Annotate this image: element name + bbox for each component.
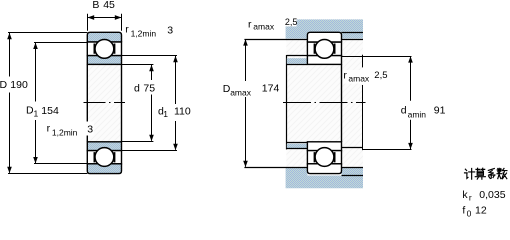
svg-text:amax: amax bbox=[230, 87, 252, 97]
groove shoulder lines bottom bbox=[94, 152, 114, 162]
svg-text:D: D bbox=[0, 79, 8, 91]
svg-text:110: 110 bbox=[174, 105, 191, 117]
dimension D_amax: dim line bbox=[245, 40, 247, 167]
groove shoulder lines top bbox=[94, 44, 114, 54]
dimension D_amax: arrows bbox=[243, 39, 248, 45]
right bearing inner ring bottom (white) bbox=[307, 142, 341, 151]
svg-text:174: 174 bbox=[262, 83, 280, 95]
label r_amax 2,5 (middle) bbox=[343, 70, 388, 84]
right bearing outer ring top (white) bbox=[307, 32, 341, 42]
housing bottom (blue) bbox=[286, 168, 363, 188]
center line (right bearing) bbox=[283, 102, 366, 104]
svg-text:2,5: 2,5 bbox=[285, 17, 298, 27]
svg-text:1: 1 bbox=[34, 109, 39, 119]
dimension d: dim line bbox=[151, 65, 153, 141]
ball bottom (right bearing) bbox=[315, 148, 334, 167]
svg-text:r: r bbox=[47, 123, 51, 135]
bearing outer ring top section (blue) bbox=[87, 32, 121, 42]
dimension B: arrows bbox=[88, 15, 95, 20]
计算系数 header (drawn as paths; CJK chars) bbox=[465, 168, 507, 179]
dimension d1: arrows bbox=[173, 56, 178, 62]
svg-text:r: r bbox=[343, 70, 347, 82]
char 系 bbox=[488, 169, 495, 179]
faint hatch background (shaft/air region) bbox=[286, 39, 363, 167]
svg-text:d: d bbox=[134, 82, 140, 94]
svg-text:154: 154 bbox=[41, 105, 59, 117]
shaft left end face line bbox=[286, 55, 288, 149]
char 数 bbox=[497, 168, 507, 178]
svg-text:3: 3 bbox=[87, 123, 93, 135]
char 计 bbox=[465, 168, 475, 179]
svg-text:3: 3 bbox=[167, 24, 173, 36]
bearing side edges through bore (left bearing) bbox=[87, 64, 121, 141]
shaft shoulder face line (right, d_a edge) bbox=[362, 55, 364, 150]
groove shoulder lines bottom (right bearing) bbox=[315, 152, 335, 162]
dimension B: extension lines bbox=[88, 14, 122, 31]
shaft shoulder top surface line (left) bbox=[287, 55, 308, 57]
svg-text:B: B bbox=[92, 0, 99, 11]
svg-text:75: 75 bbox=[143, 82, 155, 94]
dimension d: arrows bbox=[149, 65, 154, 71]
dimension D: arrows bbox=[7, 33, 12, 39]
svg-text:r: r bbox=[125, 24, 129, 36]
bore hatch area (left bearing) bbox=[88, 64, 120, 141]
svg-text:190: 190 bbox=[10, 79, 28, 91]
svg-text:91: 91 bbox=[434, 105, 446, 117]
char 算 bbox=[475, 168, 485, 179]
ball top (right bearing) bbox=[315, 40, 334, 59]
svg-text:0,035: 0,035 bbox=[479, 189, 505, 201]
svg-text:amax: amax bbox=[253, 22, 275, 32]
right bearing cage gap white bottom bbox=[307, 151, 341, 164]
cage gap white (bottom) bbox=[87, 151, 121, 164]
svg-text:1,2min: 1,2min bbox=[52, 128, 78, 138]
dimension D1: extension lines bbox=[34, 43, 87, 164]
dimension d_amin: extension lines bbox=[342, 57, 412, 150]
dimension d: extension lines bbox=[122, 65, 153, 142]
shaft seat line left-bottom bbox=[287, 142, 308, 144]
dimension B: dim line bbox=[88, 17, 122, 19]
svg-text:r: r bbox=[248, 19, 252, 31]
ball top (left bearing) bbox=[95, 40, 114, 59]
shaft shoulder face against inner ring (right bearing, through bore strip) bbox=[341, 64, 343, 141]
svg-text:amax: amax bbox=[348, 74, 370, 84]
shaft seat line left-top bbox=[287, 64, 308, 66]
housing top (blue) bbox=[286, 19, 363, 38]
dimension d1: extension lines bbox=[122, 56, 177, 151]
svg-text:r: r bbox=[469, 193, 472, 203]
svg-text:1: 1 bbox=[163, 109, 168, 119]
center line (left bearing axis of bore) bbox=[84, 102, 126, 104]
housing bottom shoulder top lines bbox=[244, 167, 363, 169]
dimension D1: dim line bbox=[35, 43, 37, 163]
svg-text:1,2min: 1,2min bbox=[131, 29, 157, 39]
dimension D: dim line bbox=[9, 33, 11, 173]
shaft cut section left-top (blue) bbox=[287, 58, 308, 64]
dimension D1: arrows bbox=[33, 43, 38, 49]
svg-text:k: k bbox=[462, 189, 468, 201]
dimension D: extension lines bbox=[8, 33, 87, 174]
bearing outer ring bottom section (blue) bbox=[87, 164, 121, 174]
svg-text:amin: amin bbox=[408, 110, 427, 120]
dimension d_amin: dim line bbox=[410, 57, 412, 149]
shaft shoulder bottom line (left) bbox=[287, 148, 308, 150]
svg-text:f: f bbox=[462, 205, 465, 217]
dimension d1: dim line bbox=[175, 56, 177, 150]
housing bottom bore line (right of bearing) bbox=[342, 175, 364, 177]
bearing inner ring bottom section (blue) bbox=[87, 142, 121, 151]
svg-text:0: 0 bbox=[467, 208, 472, 218]
bearing inner ring top section (blue) bbox=[87, 56, 121, 65]
housing top bore line (right of bearing) bbox=[342, 32, 364, 34]
ball bottom (left bearing) bbox=[95, 148, 114, 167]
svg-text:12: 12 bbox=[475, 205, 487, 217]
dimension d_amin: arrows bbox=[408, 56, 413, 62]
right bearing outer ring bottom (white) bbox=[307, 164, 341, 174]
groove shoulder lines top (right bearing) bbox=[315, 44, 335, 54]
cage gap white (top) bbox=[87, 42, 121, 56]
shaft shoulder box bottom line (right) bbox=[342, 147, 363, 149]
right bearing inner ring top (white) bbox=[307, 56, 341, 65]
right bearing: cage gap white top bbox=[307, 42, 341, 56]
svg-text:2,5: 2,5 bbox=[374, 70, 387, 81]
shaft cut section left-bottom (blue) bbox=[287, 144, 308, 149]
svg-text:45: 45 bbox=[103, 0, 115, 11]
housing top shoulder bottom lines bbox=[244, 39, 363, 41]
svg-text:d: d bbox=[401, 105, 407, 117]
